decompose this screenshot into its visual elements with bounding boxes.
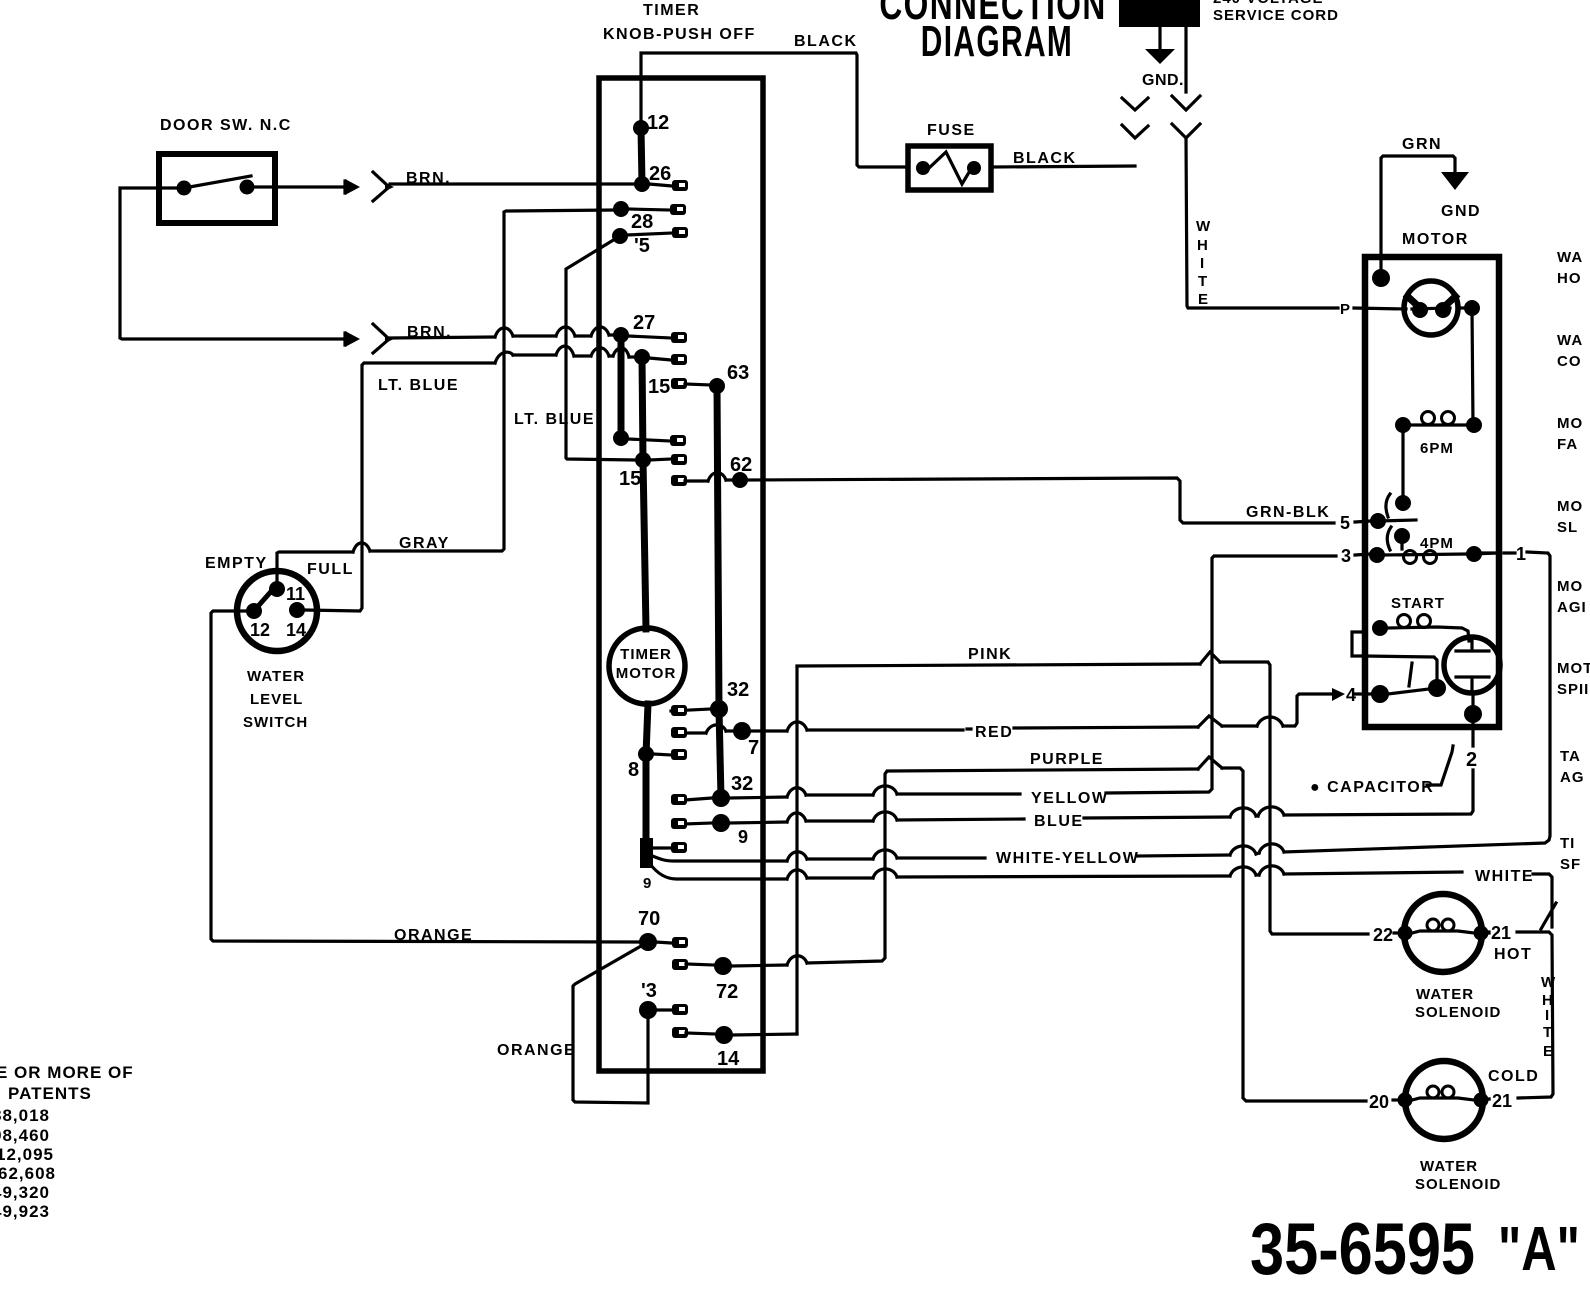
fuse F1 box bbox=[908, 146, 991, 190]
hop lt-blue over 75 riser bbox=[556, 346, 574, 356]
timer terminal 70 bbox=[655, 942, 672, 943]
timer node 26 bbox=[634, 176, 650, 192]
svg-text:TIMER: TIMER bbox=[643, 2, 700, 19]
svg-text:SERVICE CORD: SERVICE CORD bbox=[1213, 7, 1339, 24]
hop yellow over purple riser bbox=[873, 786, 897, 795]
wire node1 to right edge bbox=[1474, 553, 1497, 554]
timer bus B down to timer motor bbox=[643, 460, 646, 629]
wire 20 into cold solenoid bbox=[1393, 1098, 1400, 1101]
svg-text:● CAPACITOR: ● CAPACITOR bbox=[1310, 779, 1434, 796]
svg-text:70: 70 bbox=[638, 908, 660, 930]
svg-text:'3: '3 bbox=[641, 980, 657, 1002]
svg-text:27: 27 bbox=[633, 312, 655, 334]
wire orange: contact 12 left, down, across to timer 70 bbox=[211, 611, 641, 942]
water level switch contact 11 bbox=[269, 581, 285, 597]
svg-text:FA: FA bbox=[1557, 436, 1578, 453]
svg-text:12: 12 bbox=[647, 112, 669, 134]
svg-text:I: I bbox=[1545, 1007, 1550, 1024]
wire 75 diagonal to lt-blue vertical bbox=[566, 236, 637, 460]
fuse terminal dot right bbox=[967, 161, 981, 175]
svg-text:15: 15 bbox=[619, 468, 641, 490]
ground symbol GND (motor) bbox=[1441, 172, 1469, 190]
svg-text:TIMER: TIMER bbox=[620, 646, 672, 663]
hop white over cold riser bbox=[1230, 867, 1256, 876]
svg-text:WATER: WATER bbox=[247, 668, 305, 685]
svg-text:T: T bbox=[1198, 273, 1208, 290]
water level switch contact 12 bbox=[246, 603, 262, 619]
timer bus A 27 down bbox=[618, 335, 625, 438]
motor start coil bbox=[1372, 620, 1388, 636]
wire black fuse to service cord bbox=[993, 166, 1135, 167]
hop yellow over pink riser bbox=[787, 788, 806, 797]
wire white-yellow from timer 9 blob to motor 1 bbox=[650, 552, 1550, 861]
fuse element zigzag bbox=[928, 152, 974, 184]
timer terminal 27 bbox=[628, 336, 671, 338]
timer bus 12 to 26 bbox=[641, 128, 642, 184]
svg-text:14: 14 bbox=[286, 620, 306, 640]
svg-text:WATER: WATER bbox=[1416, 986, 1474, 1003]
timer terminal 15 lower bbox=[650, 459, 671, 460]
svg-text:PATENTS: PATENTS bbox=[8, 1084, 92, 1103]
hop gray over lt-blue riser bbox=[353, 543, 370, 552]
hop BRN over lt-blue vertical bbox=[556, 327, 575, 336]
svg-text:GRAY: GRAY bbox=[399, 535, 450, 552]
svg-text:6PM: 6PM bbox=[1420, 440, 1454, 457]
wire door switch left down and across bbox=[120, 188, 346, 339]
svg-text:WATER: WATER bbox=[1420, 1158, 1478, 1175]
svg-text:AG: AG bbox=[1560, 769, 1585, 786]
timer node 62 bbox=[732, 472, 748, 488]
svg-text:DOOR SW. N.C: DOOR SW. N.C bbox=[160, 117, 292, 134]
timer terminal 26 bbox=[649, 184, 672, 186]
timer terminal 8 bbox=[653, 754, 671, 755]
motor box outline bbox=[1365, 257, 1499, 727]
svg-text:3: 3 bbox=[1341, 546, 1351, 566]
wire main winding right leg bbox=[1472, 308, 1473, 425]
door switch S1 box bbox=[159, 154, 275, 223]
wire 22 into hot solenoid bbox=[1394, 931, 1400, 934]
protector contact right bbox=[1435, 302, 1451, 318]
wire terminal to node 72 bbox=[686, 964, 714, 965]
svg-text:WHITE: WHITE bbox=[1475, 868, 1534, 885]
hop blue over hot riser bbox=[1258, 807, 1284, 816]
wire pink riser (node 14 up to pink run) bbox=[795, 667, 798, 1034]
motor overload protector bbox=[1404, 281, 1458, 335]
water level switch arm 12-11 bbox=[252, 587, 275, 613]
hop white-yellow over pink riser bbox=[787, 852, 807, 861]
motor contact 3 bbox=[1369, 547, 1385, 563]
timer node 15a bbox=[634, 349, 650, 365]
hop lt-blue over bus A bbox=[613, 348, 629, 357]
svg-text:35-6595: 35-6595 bbox=[1250, 1209, 1475, 1290]
water level switch body bbox=[237, 571, 317, 651]
protector heater wedges bbox=[1405, 294, 1458, 307]
timer terminal 72 bbox=[672, 959, 688, 970]
timer node 63 bbox=[709, 378, 725, 394]
node above 5 bbox=[1395, 495, 1411, 511]
svg-text:MO: MO bbox=[1557, 578, 1583, 595]
hop white-yellow over purple riser bbox=[873, 850, 897, 859]
timer node 32 lower bbox=[712, 789, 730, 807]
svg-text:MOTOR: MOTOR bbox=[616, 665, 677, 682]
timer node 9b bbox=[712, 814, 730, 832]
svg-text:PINK: PINK bbox=[968, 646, 1012, 663]
start switch right contact bbox=[1428, 679, 1446, 697]
timer node 12 bbox=[633, 120, 649, 136]
hop blue over purple riser bbox=[873, 812, 897, 821]
motor speed switch arcs bbox=[1386, 494, 1391, 550]
connector chevron BRN lower (female) bbox=[373, 324, 388, 353]
svg-text:"A": "A" bbox=[1498, 1213, 1580, 1283]
timer terminal of node A-bottom bbox=[628, 439, 670, 441]
label SERVICE CORD (first line cropped at top) bbox=[1213, 0, 1339, 24]
connector chevron black lead upper bbox=[1122, 98, 1148, 110]
svg-text:SOLENOID: SOLENOID bbox=[1415, 1004, 1501, 1021]
motor contact 4 bbox=[1371, 685, 1389, 703]
svg-text:E OR MORE OF: E OR MORE OF bbox=[0, 1063, 134, 1082]
svg-text:62,608: 62,608 bbox=[0, 1164, 56, 1183]
label WHITE (vertical) bbox=[1196, 218, 1211, 308]
wire black timer top to fuse bbox=[641, 53, 906, 167]
svg-text:SWITCH: SWITCH bbox=[243, 714, 308, 731]
svg-text:LT. BLUE: LT. BLUE bbox=[514, 411, 595, 428]
svg-text:FULL: FULL bbox=[307, 561, 354, 578]
wire white from timer 9 blob to solenoids bbox=[650, 864, 1556, 929]
wire yellow from timer 32 lower bbox=[730, 554, 1371, 798]
svg-text:28: 28 bbox=[631, 211, 653, 233]
motor node 1 bbox=[1466, 546, 1482, 562]
timer node 72 bbox=[714, 957, 732, 975]
service cord plug (black box) bbox=[1119, 0, 1200, 27]
svg-text:LEVEL: LEVEL bbox=[250, 691, 303, 708]
svg-text:AGI: AGI bbox=[1557, 599, 1587, 616]
svg-text:21: 21 bbox=[1491, 923, 1511, 943]
svg-text:P: P bbox=[1340, 301, 1351, 318]
svg-text:DIAGRAM: DIAGRAM bbox=[921, 16, 1073, 65]
svg-text:49,923: 49,923 bbox=[0, 1202, 50, 1221]
hot solenoid coil bbox=[1412, 931, 1474, 933]
motor contact 5 bbox=[1370, 513, 1386, 529]
hop white-yellow over hot riser bbox=[1259, 844, 1284, 853]
svg-text:SL: SL bbox=[1557, 519, 1578, 536]
capacitor plates bbox=[1456, 640, 1489, 693]
wire hot 21 to white riser bbox=[1489, 932, 1553, 1099]
svg-text:T: T bbox=[1543, 1024, 1553, 1041]
hop BRN over gray vertical bbox=[495, 328, 513, 337]
wire terminal 15 to node 63 bbox=[685, 384, 711, 385]
svg-text:GND.: GND. bbox=[1142, 72, 1184, 89]
timer terminal 75 bbox=[627, 233, 672, 235]
label WHITE (vertical between solenoids) bbox=[1541, 974, 1556, 1060]
motor coil 6PM bbox=[1395, 417, 1411, 433]
label WATER LEVEL SWITCH bbox=[243, 668, 308, 731]
motor grn node bbox=[1372, 269, 1390, 287]
hop purple-72 over pink riser bbox=[787, 956, 807, 965]
svg-text:BLACK: BLACK bbox=[794, 33, 858, 50]
cold water solenoid body bbox=[1405, 1061, 1483, 1139]
svg-text:COLD: COLD bbox=[1488, 1068, 1539, 1085]
timer bus B motor to node 8 bbox=[646, 704, 648, 754]
svg-text:BLACK: BLACK bbox=[1013, 150, 1077, 167]
svg-text:KNOB-PUSH OFF: KNOB-PUSH OFF bbox=[603, 26, 756, 43]
svg-text:20: 20 bbox=[1369, 1092, 1389, 1112]
svg-text:E: E bbox=[1543, 1043, 1554, 1060]
hop red over pink riser bbox=[787, 722, 807, 731]
hop red over pink downrun bbox=[1257, 717, 1283, 726]
wire BRN upper to timer 26 bbox=[390, 182, 634, 185]
wire from 5 contact right bbox=[1378, 520, 1416, 521]
start switch arm bbox=[1380, 688, 1437, 695]
svg-text:BLUE: BLUE bbox=[1034, 813, 1084, 830]
door switch arm bbox=[184, 176, 251, 188]
svg-text:YELLOW: YELLOW bbox=[1031, 790, 1108, 807]
svg-text:TI: TI bbox=[1560, 835, 1575, 852]
timer terminal 32 lower bbox=[685, 798, 712, 800]
wire blue from timer 9b to capacitor 2 bbox=[730, 694, 1473, 823]
label WATER SOLENOID (hot) bbox=[1415, 986, 1501, 1021]
protector output node bbox=[1464, 300, 1480, 316]
timer terminal 9 bbox=[653, 846, 671, 849]
svg-text:22: 22 bbox=[1373, 925, 1393, 945]
svg-text:FUSE: FUSE bbox=[927, 122, 976, 139]
timer node 7 bbox=[733, 722, 751, 740]
cold solenoid coil bbox=[1412, 1098, 1474, 1100]
label WATER SOLENOID (cold) bbox=[1415, 1158, 1501, 1193]
hop blue over cold riser bbox=[1230, 808, 1256, 817]
timer bus B node 8 to node 9 blob bbox=[643, 754, 650, 840]
motor capacitor circle bbox=[1444, 637, 1500, 693]
hot water solenoid body bbox=[1404, 894, 1482, 972]
timer bus C 32 to 32 lower bbox=[719, 709, 721, 798]
svg-text:HOT: HOT bbox=[1494, 946, 1532, 963]
water level switch contact 14 bbox=[289, 602, 305, 618]
svg-text:W: W bbox=[1196, 218, 1211, 235]
hop white over purple riser bbox=[873, 869, 897, 878]
timer node A-bottom bbox=[613, 430, 629, 446]
wire red from timer 7 bbox=[750, 694, 1372, 731]
svg-text:2: 2 bbox=[1466, 749, 1477, 771]
right margin function labels (cropped) bbox=[1557, 249, 1590, 873]
wire P into protector bbox=[1354, 308, 1450, 309]
timer terminal 9b bbox=[685, 823, 712, 824]
svg-text:GRN: GRN bbox=[1402, 136, 1442, 153]
svg-text:62: 62 bbox=[730, 454, 752, 476]
timer terminal 32 upper bbox=[671, 709, 710, 711]
node 4PM moving contact bbox=[1394, 528, 1410, 544]
wire node 14 to pink riser corner bbox=[733, 1034, 797, 1035]
timer node 15 lower bbox=[635, 452, 651, 468]
wire lt-blue: contact 14 right, up, top of box to hop bbox=[305, 355, 635, 611]
wire white neutral down to motor P bbox=[1186, 138, 1338, 308]
wire cold 21 stub bbox=[1482, 1099, 1489, 1100]
svg-text:I: I bbox=[1200, 255, 1205, 272]
svg-text:4: 4 bbox=[1346, 685, 1356, 705]
wire tab to start contact right bbox=[1365, 656, 1437, 682]
svg-text:'5: '5 bbox=[634, 235, 650, 257]
wire service cord white lead bbox=[1184, 27, 1187, 92]
wire service cord ground lead bbox=[1158, 27, 1161, 50]
hop white over pink riser bbox=[787, 870, 807, 879]
hop BRN over timer edge bbox=[591, 327, 609, 336]
motor coil 4PM bbox=[1384, 554, 1466, 555]
hop purple over agitate riser (tent) bbox=[1198, 757, 1222, 769]
svg-text:RED: RED bbox=[975, 724, 1013, 741]
wire purple 72 run bbox=[732, 768, 1366, 1101]
svg-text:4PM: 4PM bbox=[1420, 535, 1454, 552]
svg-text:W: W bbox=[1541, 974, 1556, 991]
svg-text:5: 5 bbox=[1340, 513, 1350, 533]
timer terminal 62 bbox=[671, 475, 687, 486]
svg-text:14: 14 bbox=[717, 1048, 740, 1070]
door switch contact right bbox=[240, 180, 255, 195]
svg-text:49,320: 49,320 bbox=[0, 1183, 50, 1202]
timer terminal 15 upper bbox=[671, 378, 687, 389]
svg-text:WA: WA bbox=[1557, 249, 1583, 266]
svg-text:11: 11 bbox=[286, 584, 305, 604]
svg-text:9: 9 bbox=[738, 827, 748, 847]
svg-text:88,018: 88,018 bbox=[0, 1106, 50, 1125]
wire 6PM left leg down bbox=[1401, 425, 1404, 503]
hop white over hot riser bbox=[1259, 866, 1284, 875]
svg-text:MOT: MOT bbox=[1557, 660, 1590, 677]
wire pink horizontal run bbox=[797, 662, 1368, 934]
timer node 75 bbox=[612, 228, 628, 244]
svg-text:TA: TA bbox=[1560, 748, 1581, 765]
ground symbol GND (service cord) bbox=[1145, 49, 1175, 64]
svg-text:21: 21 bbox=[1492, 1091, 1512, 1111]
svg-text:LT. BLUE: LT. BLUE bbox=[378, 377, 459, 394]
svg-text:15: 15 bbox=[648, 376, 670, 398]
wire door switch right to connector bbox=[254, 185, 346, 188]
timer terminal 15a bbox=[649, 358, 671, 360]
timer bus C 63 down to 32 bbox=[717, 386, 719, 709]
timer terminal 13 bbox=[655, 1008, 672, 1011]
protector contact left bbox=[1412, 302, 1428, 318]
svg-text:32: 32 bbox=[727, 679, 749, 701]
node capacitor 2 bbox=[1464, 705, 1482, 723]
timer bus B 15a down bbox=[642, 357, 643, 460]
svg-text:MOTOR: MOTOR bbox=[1402, 231, 1469, 248]
hot solenoid terminal 22 bbox=[1398, 926, 1413, 941]
hot solenoid terminal 21 bbox=[1474, 926, 1489, 941]
timer node 8 bbox=[638, 746, 654, 762]
hop blue over pink riser bbox=[787, 813, 806, 822]
svg-text:SPII: SPII bbox=[1557, 681, 1589, 698]
svg-text:8: 8 bbox=[628, 759, 639, 781]
timer node 70 bbox=[639, 933, 657, 951]
svg-text:9: 9 bbox=[643, 875, 651, 892]
svg-text:63: 63 bbox=[727, 362, 749, 384]
svg-text:START: START bbox=[1391, 595, 1445, 612]
fuse terminal dot left bbox=[916, 161, 930, 175]
connector arrow BRN lower (male pin) bbox=[345, 331, 360, 347]
svg-text:ORANGE: ORANGE bbox=[394, 927, 473, 944]
connector chevron BRN upper (female) bbox=[373, 172, 388, 201]
connector chevron white lead lower (joined to wire) bbox=[1172, 124, 1200, 138]
svg-text:MO: MO bbox=[1557, 415, 1583, 432]
svg-text:PURPLE: PURPLE bbox=[1030, 751, 1104, 768]
patent list (left margin, cropped) bbox=[0, 1063, 134, 1221]
hop pink over agitate riser bbox=[1200, 652, 1220, 664]
wire protector to node bbox=[1458, 306, 1472, 309]
timer terminal 28 bbox=[628, 209, 670, 210]
document number 35-6595 "A" bbox=[1250, 1209, 1580, 1290]
cold solenoid terminal 21 bbox=[1474, 1093, 1489, 1108]
svg-text:SF: SF bbox=[1560, 856, 1581, 873]
wire BRN lower to timer 27 with hops bbox=[390, 335, 614, 338]
wire terminal to node 14 bbox=[686, 1033, 715, 1034]
wire node 70 diagonal to lower loop bbox=[573, 942, 648, 1103]
timer node 28 bbox=[613, 201, 629, 217]
connector chevron black lead lower bbox=[1122, 125, 1148, 138]
timer node 13 bbox=[639, 1001, 657, 1019]
door switch contact left bbox=[177, 181, 192, 196]
svg-text:EMPTY: EMPTY bbox=[205, 555, 268, 572]
timer node 32 upper bbox=[710, 700, 728, 718]
svg-text:ORANGE: ORANGE bbox=[497, 1042, 576, 1059]
svg-text:240 VOLTAGE: 240 VOLTAGE bbox=[1213, 0, 1323, 7]
timer motor M2 circle bbox=[609, 628, 685, 704]
timer terminal 14 bbox=[672, 1027, 688, 1038]
svg-text:12: 12 bbox=[250, 620, 270, 640]
red arrowhead at motor 4 bbox=[1332, 688, 1345, 701]
hop red over agitate riser (tent) bbox=[1198, 716, 1222, 727]
wire terminal to node 62 with hop over bus C bbox=[685, 480, 733, 481]
timer node 14 bbox=[715, 1026, 733, 1044]
svg-text:GRN-BLK: GRN-BLK bbox=[1246, 504, 1330, 521]
svg-text:26: 26 bbox=[649, 163, 671, 185]
svg-text:E: E bbox=[1198, 291, 1209, 308]
svg-text:72: 72 bbox=[716, 981, 738, 1003]
svg-text:H: H bbox=[1197, 237, 1209, 254]
hop lt-blue over gray riser bbox=[495, 352, 513, 363]
timer node 9 blob bbox=[640, 838, 653, 868]
wire gray: contact 11 up and right with hop, to vertical riser bbox=[277, 210, 614, 589]
wire grn-blk from timer 62 to motor 5 bbox=[747, 478, 1371, 523]
start switch blade bbox=[1409, 663, 1412, 686]
timer box outline bbox=[599, 78, 763, 1071]
svg-text:GND: GND bbox=[1441, 203, 1481, 220]
hop white-yellow over cold riser bbox=[1230, 846, 1256, 855]
svg-text:MO: MO bbox=[1557, 498, 1583, 515]
cold solenoid terminal 20 bbox=[1398, 1093, 1413, 1108]
svg-text:32: 32 bbox=[731, 773, 753, 795]
start switch tab (left bracket) bbox=[1352, 632, 1365, 656]
svg-text:12,095: 12,095 bbox=[0, 1145, 54, 1164]
connector arrow BRN upper (male pin) bbox=[345, 179, 360, 195]
timer node 27 bbox=[613, 327, 629, 343]
wire grn motor to ground bbox=[1381, 156, 1455, 278]
svg-text:7: 7 bbox=[748, 737, 759, 759]
svg-text:HO: HO bbox=[1557, 270, 1582, 287]
connector chevron white lead upper bbox=[1172, 96, 1200, 110]
svg-text:SOLENOID: SOLENOID bbox=[1415, 1176, 1501, 1193]
svg-text:WA: WA bbox=[1557, 332, 1583, 349]
svg-text:1: 1 bbox=[1516, 544, 1526, 564]
hop lt-blue over timer edge bbox=[591, 348, 609, 356]
svg-text:98,460: 98,460 bbox=[0, 1126, 50, 1145]
timer terminal 7 with hop over bus C bbox=[685, 731, 733, 733]
svg-text:CO: CO bbox=[1557, 353, 1582, 370]
svg-text:WHITE-YELLOW: WHITE-YELLOW bbox=[996, 850, 1139, 867]
